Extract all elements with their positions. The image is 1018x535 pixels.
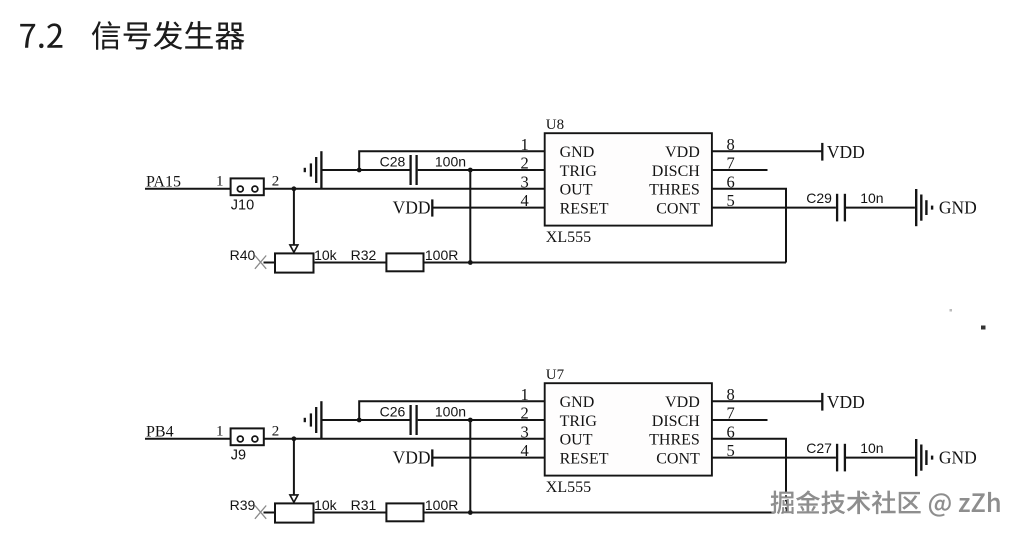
- svg-text:C28: C28: [380, 153, 406, 169]
- svg-text:10n: 10n: [860, 190, 883, 206]
- svg-text:U8: U8: [546, 117, 564, 133]
- VDD power bar at pin 8: [821, 393, 823, 411]
- svg-text:1: 1: [521, 385, 529, 404]
- svg-text:CONT: CONT: [656, 450, 700, 467]
- IC U8 body (XL555): [545, 133, 712, 225]
- wire OUT node down to R40 wiper: [293, 189, 295, 245]
- svg-text:R32: R32: [351, 247, 377, 263]
- junction node GND net: [357, 168, 362, 173]
- resistor R31 body: [386, 503, 423, 521]
- svg-text:1: 1: [521, 135, 529, 154]
- svg-text:RESET: RESET: [560, 200, 609, 217]
- ground symbol (left, at C26): [304, 418, 306, 422]
- junction node TRIG/C26: [468, 418, 473, 423]
- capacitor C26 plates: [409, 405, 411, 435]
- capacitor C28 plates: [409, 155, 411, 185]
- stray mark 2: [950, 309, 953, 312]
- wire C28 to TRIG junction: [418, 169, 545, 171]
- wire ground to GND junction: [321, 419, 359, 421]
- svg-text:3: 3: [521, 422, 529, 441]
- svg-text:R31: R31: [351, 497, 377, 513]
- VDD power bar at RESET: [431, 449, 433, 466]
- svg-text:VDD: VDD: [393, 448, 431, 468]
- wire PA15 to J10 pin1: [145, 188, 231, 190]
- svg-text:C26: C26: [380, 403, 406, 419]
- watermark 掘金技术社区 @ zZh (gray text layer): [771, 490, 1000, 516]
- potentiometer R39 body: [275, 503, 314, 522]
- svg-text:100n: 100n: [435, 403, 466, 419]
- wire stub pin 7 DISCH: [712, 169, 768, 171]
- svg-text:U7: U7: [546, 367, 565, 383]
- svg-text:GND: GND: [560, 394, 595, 411]
- wire GND junction up and right to pin 1: [359, 151, 545, 170]
- wire R40 to R32: [314, 262, 387, 264]
- svg-text:1: 1: [216, 423, 224, 439]
- svg-text:TRIG: TRIG: [560, 413, 598, 430]
- junction node GND net: [357, 418, 362, 423]
- svg-text:VDD: VDD: [665, 394, 700, 411]
- svg-text:J9: J9: [231, 447, 246, 463]
- wire J10 pin2 to OUT node: [264, 188, 545, 190]
- svg-text:2: 2: [272, 173, 280, 189]
- svg-text:10k: 10k: [314, 247, 338, 263]
- wire pin 8 to VDD: [712, 400, 822, 402]
- wiper arrowhead of R40: [290, 245, 298, 252]
- ground symbol (right, at C29): [915, 189, 917, 226]
- no-ERC cross on R40 pin: [255, 256, 266, 269]
- wire GND junction up and right to pin 1: [359, 401, 545, 420]
- wire R39 to R31: [314, 512, 387, 514]
- watermark 掘金技术社区 @ zZh (white relief layer): [772, 492, 1001, 518]
- junction node OUT/J9: [292, 436, 297, 441]
- VDD power bar at RESET: [431, 199, 433, 216]
- svg-text:VDD: VDD: [665, 144, 700, 161]
- svg-text:GND: GND: [939, 447, 977, 467]
- svg-text:1: 1: [216, 173, 224, 189]
- svg-text:XL555: XL555: [546, 479, 591, 496]
- capacitor C27 plates: [836, 444, 838, 472]
- section title "7.2 信号发生器": [20, 23, 62, 48]
- svg-text:4: 4: [521, 441, 529, 460]
- wire J9 pin2 to OUT node: [264, 438, 545, 440]
- svg-text:C27: C27: [806, 440, 832, 456]
- wire pin 6 THRES to feedback: [712, 189, 786, 263]
- svg-text:R39: R39: [230, 497, 256, 513]
- svg-text:2: 2: [521, 404, 529, 423]
- svg-text:XL555: XL555: [546, 229, 591, 246]
- svg-text:100n: 100n: [435, 153, 466, 169]
- connector J9 (2-pin header): [231, 428, 264, 445]
- junction node OUT/J10: [292, 186, 297, 191]
- svg-text:100R: 100R: [425, 247, 458, 263]
- svg-text:GND: GND: [560, 144, 595, 161]
- wire C26 to TRIG junction: [418, 419, 545, 421]
- VDD power bar at pin 8: [821, 143, 823, 161]
- svg-text:OUT: OUT: [560, 432, 593, 449]
- svg-text:TRIG: TRIG: [560, 163, 598, 180]
- svg-text:10k: 10k: [314, 497, 338, 513]
- svg-text:C29: C29: [806, 190, 832, 206]
- wire GND junction to C26: [359, 419, 409, 421]
- svg-text:THRES: THRES: [649, 432, 700, 449]
- svg-text:THRES: THRES: [649, 182, 700, 199]
- junction node TRIG/R31: [468, 510, 473, 515]
- connector J10 (2-pin header): [231, 178, 264, 195]
- svg-text:RESET: RESET: [560, 450, 609, 467]
- capacitor C29 plates: [836, 194, 838, 222]
- wire PB4 to J9 pin1: [145, 438, 231, 440]
- svg-text:VDD: VDD: [827, 392, 865, 412]
- svg-text:10n: 10n: [860, 440, 883, 456]
- wire VDD to RESET pin 4: [432, 457, 544, 459]
- junction node TRIG/R32: [468, 260, 473, 265]
- wire VDD to RESET pin 4: [432, 207, 544, 209]
- vertical wire TRIG node: [469, 420, 471, 513]
- svg-text:2: 2: [521, 154, 529, 173]
- potentiometer R40 body: [275, 253, 314, 272]
- wire pin 8 to VDD: [712, 150, 822, 152]
- wire C27 to ground: [846, 457, 915, 459]
- IC U7 body (XL555): [545, 383, 712, 475]
- wire stub pin 7 DISCH: [712, 419, 768, 421]
- resistor R32 body: [386, 253, 423, 271]
- wire stub left of R39: [264, 512, 276, 514]
- wire OUT node down to R39 wiper: [293, 439, 295, 495]
- wire C29 to ground: [846, 207, 915, 209]
- wire pin 6 THRES to feedback: [712, 439, 786, 513]
- junction node TRIG/C28: [468, 168, 473, 173]
- svg-text:3: 3: [521, 172, 529, 191]
- svg-text:OUT: OUT: [560, 182, 593, 199]
- svg-text:2: 2: [272, 423, 280, 439]
- wire pin 5 CONT to C27: [712, 457, 836, 459]
- ground symbol (right, at C27): [915, 439, 917, 476]
- svg-text:DISCH: DISCH: [652, 413, 700, 430]
- svg-text:VDD: VDD: [393, 198, 431, 218]
- wire R32 to THRES feedback: [424, 262, 787, 264]
- ground symbol (left, at C28): [304, 168, 306, 172]
- svg-text:VDD: VDD: [827, 142, 865, 162]
- wire pin 5 CONT to C29: [712, 207, 836, 209]
- svg-text:CONT: CONT: [656, 200, 700, 217]
- svg-text:GND: GND: [939, 197, 977, 217]
- wire stub left of R40: [264, 262, 276, 264]
- wire R31 to THRES feedback: [424, 512, 787, 514]
- vertical wire TRIG node: [469, 170, 471, 263]
- svg-text:R40: R40: [230, 247, 256, 263]
- svg-text:DISCH: DISCH: [652, 163, 700, 180]
- wire ground to GND junction: [321, 169, 359, 171]
- svg-text:J10: J10: [231, 197, 254, 213]
- no-ERC cross on R39 pin: [255, 506, 266, 519]
- svg-text:4: 4: [521, 191, 529, 210]
- svg-text:100R: 100R: [425, 497, 458, 513]
- stray mark 1: [981, 326, 986, 330]
- wire GND junction to C28: [359, 169, 409, 171]
- wiper arrowhead of R39: [290, 495, 298, 502]
